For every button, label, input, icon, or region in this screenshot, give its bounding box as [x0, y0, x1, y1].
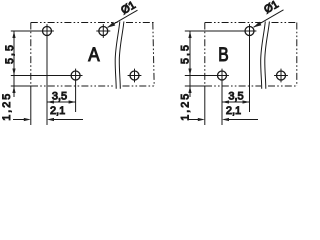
extension line down from hole B top 1: [249, 24, 251, 112]
dimension line A left stack: [13, 31, 15, 97]
hole B bottom 1: [218, 71, 227, 80]
hole B bottom 2 (phantom part): [277, 71, 286, 80]
svg-text:B: B: [218, 45, 228, 66]
panel B left edge (phantom line): [204, 23, 206, 87]
dimension line 2,1 (A) outside arrows: [13, 119, 24, 121]
hole A top 2 crosshair: [96, 30, 110, 32]
panel B edge extension below (for 2,1 dim): [204, 87, 206, 126]
arrow up tip y31 (5,5): [12, 31, 15, 38]
extension line down from hole A top 1: [46, 24, 48, 125]
panel B break line (left wave): [261, 22, 266, 89]
panel A break line (right wave): [119, 22, 124, 89]
svg-text:1,25: 1,25: [180, 92, 192, 121]
panel A left edge (phantom line): [30, 23, 32, 87]
panel A bottom edge (phantom line, right of break): [123, 85, 155, 87]
extension line top hole row A (y=31): [11, 30, 54, 32]
svg-text:2,1: 2,1: [50, 105, 65, 117]
panel B break line (right wave): [265, 22, 270, 89]
panel A break line (left wave): [115, 22, 120, 89]
svg-text:3,5: 3,5: [52, 90, 67, 102]
hole A bottom 2 (phantom part): [130, 71, 139, 80]
dimension line 3,5 (B): [222, 101, 250, 103]
extension line down from hole B bottom 1: [221, 69, 223, 125]
dimension line 3,5 (A): [47, 101, 76, 103]
svg-text:A: A: [88, 45, 100, 66]
arrow down tip y75.5 (5,5 / 1,25): [12, 69, 15, 76]
arrow up tip y86 (1,25): [12, 86, 15, 93]
dimension line 2,1 (B) outside arrows: [188, 119, 199, 121]
panel B bottom edge (phantom line, left of break): [205, 85, 261, 87]
hole A bottom 1: [71, 71, 80, 80]
hole A top 2: [99, 27, 108, 36]
extension line down from hole A bottom 1: [75, 69, 77, 112]
leader line diameter 1 (B): [254, 10, 284, 27]
panel A bottom edge (phantom line, left of break): [31, 85, 115, 87]
extension line top hole row B (y=31): [185, 30, 257, 32]
panel A top edge (phantom line, left of break): [31, 22, 118, 24]
panel B right phantom edge: [296, 23, 298, 87]
panel A top edge (phantom line, right of break): [126, 22, 154, 24]
extension line bottom hole row A (y=75.5): [11, 75, 83, 77]
svg-text:5,5: 5,5: [180, 43, 192, 64]
panel B bottom edge (phantom line, right of break): [268, 85, 297, 87]
panel B top edge (phantom line, left of break): [205, 22, 263, 24]
panel A right phantom edge: [153, 23, 154, 87]
svg-text:Ø1: Ø1: [119, 0, 138, 17]
hole B bottom 2 crosshair: [274, 75, 288, 77]
svg-text:3,5: 3,5: [228, 90, 243, 102]
hole A bottom 2 crosshair: [128, 75, 142, 77]
hole A top 1: [43, 27, 52, 36]
extension line bottom hole row B (y=75.5): [185, 75, 229, 77]
svg-text:5,5: 5,5: [4, 43, 16, 64]
leader line diameter 1 (A): [108, 10, 138, 27]
extension of bottom edge A (y=86): [11, 85, 31, 87]
panel B top edge (phantom line, right of break): [272, 22, 297, 24]
extension of bottom edge B (y=86): [185, 85, 205, 87]
dimension line B left stack: [189, 31, 191, 97]
svg-text:1,25: 1,25: [1, 92, 13, 121]
svg-text:2,1: 2,1: [226, 105, 241, 117]
svg-text:Ø1: Ø1: [262, 0, 281, 16]
panel A edge extension below (for 2,1 dim): [30, 87, 32, 126]
hole B top 1: [245, 27, 254, 36]
